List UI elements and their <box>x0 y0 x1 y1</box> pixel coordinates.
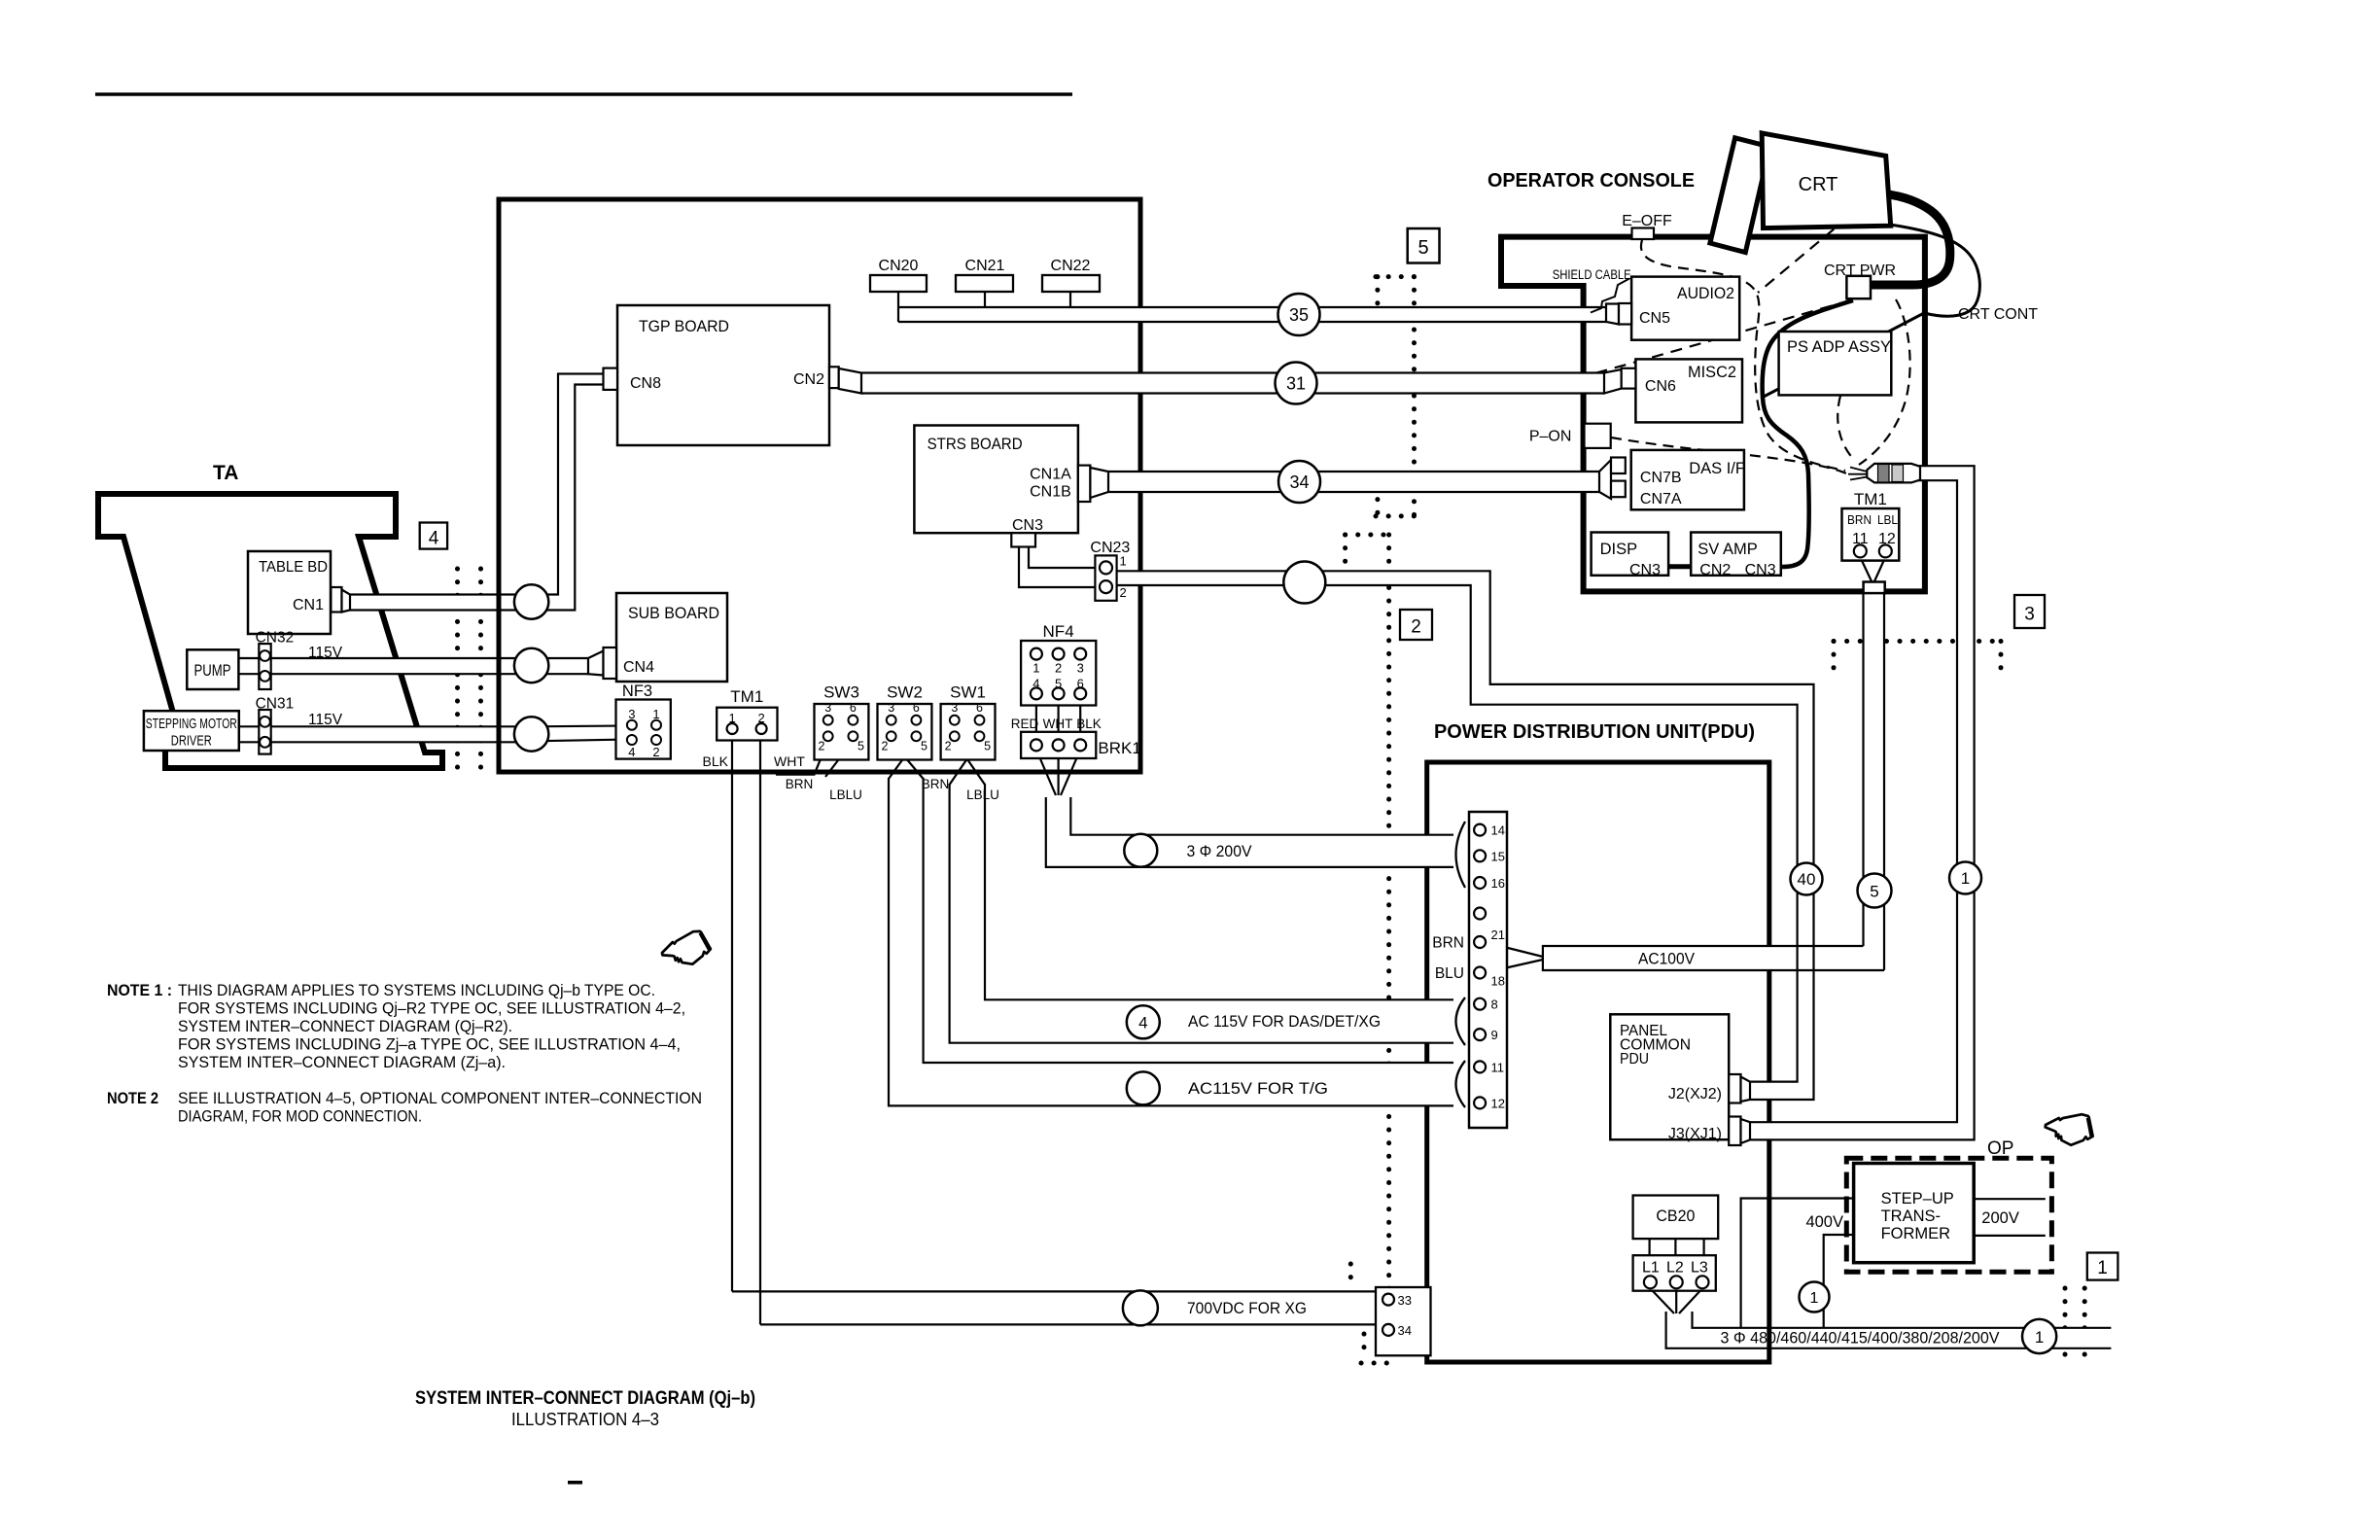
node circle NF3 <box>514 717 548 751</box>
wire 200V upper <box>1974 1198 2046 1200</box>
wires console TM1 to stub <box>1860 557 1872 582</box>
svg-text:LBLU: LBLU <box>966 787 999 802</box>
wires CN20-22 drop stubs <box>897 292 899 307</box>
svg-text:TM1: TM1 <box>1854 490 1887 508</box>
boundary tag 1 square <box>2087 1253 2118 1280</box>
node circle on T/G cable <box>1127 1071 1160 1104</box>
svg-text:2: 2 <box>819 740 825 753</box>
svg-text:STEPPING MOTOR: STEPPING MOTOR <box>146 716 237 732</box>
note 2 text block <box>107 1090 702 1126</box>
svg-text:P–ON: P–ON <box>1529 429 1572 445</box>
svg-text:LBLU: LBLU <box>829 787 862 802</box>
gantry enclosure box <box>499 199 1140 772</box>
wire 200V lower <box>1974 1235 2046 1237</box>
dashed stub from PS ADP ASSY bottom <box>1837 396 1855 461</box>
PDU right edge stub across 3-phase bus <box>1767 1328 1771 1348</box>
svg-text:31: 31 <box>1286 374 1306 394</box>
box PANEL COMMON PDU <box>1610 1014 1729 1139</box>
pointing hand icon left <box>662 931 711 964</box>
svg-text:2: 2 <box>1411 617 1421 638</box>
node circle 31 <box>1276 363 1317 404</box>
connector CN7B CN7A <box>1599 460 1611 499</box>
svg-text:CN7A: CN7A <box>1640 491 1682 507</box>
cable tube fills <box>350 595 537 611</box>
box BRK1 <box>1021 732 1096 758</box>
node circle CN4 <box>514 648 548 682</box>
svg-text:40: 40 <box>1798 870 1816 889</box>
svg-text:CN1: CN1 <box>293 597 324 613</box>
svg-text:1: 1 <box>1810 1290 1819 1307</box>
svg-text:BLU: BLU <box>1435 965 1464 982</box>
strip bracket 14-16 <box>1456 822 1466 888</box>
thick CRT PWR power cable <box>1871 193 1950 285</box>
boundary tag 5 <box>1408 228 1440 263</box>
box SV AMP <box>1691 533 1781 576</box>
svg-text:WHT: WHT <box>774 753 805 769</box>
terminal strip <box>1469 812 1507 1128</box>
connector CN5 <box>1606 304 1619 325</box>
svg-text:11: 11 <box>1491 1060 1505 1074</box>
wires node to TGP CN8 <box>533 374 604 611</box>
page dash mark <box>568 1481 582 1485</box>
connector STRS CN3 <box>1011 533 1035 546</box>
svg-text:SYSTEM INTER–CONNECT DIAGRAM (: SYSTEM INTER–CONNECT DIAGRAM (Qj–R2). <box>178 1018 512 1035</box>
svg-text:400V: 400V <box>1805 1213 1843 1231</box>
svg-text:5: 5 <box>857 740 864 753</box>
cable 34 lines <box>1108 471 1604 472</box>
svg-text:3 Φ 480/460/440/415/400/380/20: 3 Φ 480/460/440/415/400/380/208/200V <box>1721 1330 2000 1347</box>
connector J2 <box>1729 1074 1740 1103</box>
svg-text:SYSTEM INTER–CONNECT DIAGRAM (: SYSTEM INTER–CONNECT DIAGRAM (Qj–b) <box>415 1387 755 1409</box>
svg-text:L2: L2 <box>1666 1260 1684 1277</box>
boundary tag 2 <box>1400 610 1432 640</box>
svg-text:SW1: SW1 <box>950 683 986 702</box>
svg-text:115V: 115V <box>308 712 343 728</box>
svg-text:TRANS-: TRANS- <box>1881 1207 1941 1225</box>
svg-text:TGP BOARD: TGP BOARD <box>639 318 729 335</box>
wires terminal 21 18 to AC100V <box>1485 942 1543 957</box>
tube from console TM1 lines <box>1864 593 1885 970</box>
thick link DISP CN3 to SV AMP CN2 <box>1668 564 1691 569</box>
svg-text:AUDIO2: AUDIO2 <box>1677 285 1734 302</box>
cable AC115V for T/G lines <box>889 778 1453 1105</box>
svg-text:CN3: CN3 <box>1745 562 1776 578</box>
svg-text:CN6: CN6 <box>1645 378 1676 395</box>
svg-text:DISP: DISP <box>1600 541 1638 558</box>
svg-text:CRT: CRT <box>1799 174 1838 195</box>
pointing hand icon right <box>2042 1104 2098 1151</box>
multiconnector near TM1 <box>1867 464 1920 483</box>
svg-text:1: 1 <box>1120 554 1127 569</box>
svg-text:1: 1 <box>652 707 659 721</box>
svg-text:CN5: CN5 <box>1639 310 1670 327</box>
gantry wall stubs across TA cables <box>497 595 502 611</box>
connector CN4 <box>588 651 604 676</box>
connector CN1A CN1B <box>1078 466 1091 502</box>
wires STRS CN3 to CN23 <box>1019 546 1100 587</box>
svg-text:MISC2: MISC2 <box>1688 364 1736 381</box>
wires multiconnector fan <box>1850 468 1867 472</box>
svg-text:16: 16 <box>1491 876 1505 891</box>
svg-text:FOR SYSTEMS INCLUDING Zj–a TYP: FOR SYSTEMS INCLUDING Zj–a TYPE OC, SEE … <box>178 1036 681 1054</box>
svg-text:SUB BOARD: SUB BOARD <box>628 605 719 622</box>
svg-text:1: 1 <box>2097 1258 2108 1278</box>
connector box 33 34 <box>1376 1287 1431 1355</box>
svg-text:TM1: TM1 <box>730 687 763 706</box>
svg-text:AC115V FOR T/G: AC115V FOR T/G <box>1188 1080 1328 1098</box>
node circle 34 <box>1278 461 1320 503</box>
svg-text:DIAGRAM, FOR MOD CONNECTION.: DIAGRAM, FOR MOD CONNECTION. <box>178 1108 422 1126</box>
svg-text:ILLUSTRATION 4–3: ILLUSTRATION 4–3 <box>511 1410 659 1429</box>
svg-text:PDU: PDU <box>1620 1051 1649 1067</box>
svg-text:21: 21 <box>1491 927 1505 942</box>
box DAS I/F <box>1631 450 1744 509</box>
node circle 1 on 400V wire <box>1800 1282 1830 1312</box>
svg-text:SW3: SW3 <box>823 683 859 702</box>
svg-text:STRS BOARD: STRS BOARD <box>927 436 1023 453</box>
svg-text:115V: 115V <box>308 645 343 661</box>
wires NF4 to BRK1 <box>1035 698 1037 740</box>
svg-text:NF4: NF4 <box>1043 622 1074 641</box>
svg-text:5: 5 <box>1870 883 1878 901</box>
svg-text:SW2: SW2 <box>887 683 923 702</box>
svg-text:3: 3 <box>1077 661 1084 676</box>
svg-text:CRT CONT: CRT CONT <box>1958 306 2038 323</box>
svg-text:CN4: CN4 <box>623 659 654 676</box>
svg-text:DRIVER: DRIVER <box>171 733 212 750</box>
svg-text:BRN: BRN <box>1432 935 1464 952</box>
svg-text:J3(XJ1): J3(XJ1) <box>1668 1126 1722 1142</box>
svg-text:CN3: CN3 <box>1012 517 1043 534</box>
svg-text:BLK: BLK <box>1076 717 1102 731</box>
svg-text:STEP–UP: STEP–UP <box>1881 1190 1954 1207</box>
strip bracket 11-12 <box>1456 1061 1466 1107</box>
tube 1 to J3 lines <box>1750 466 1975 1139</box>
wires NF3 node to NF3 <box>533 724 628 727</box>
node circle CN1 <box>514 584 548 618</box>
boundary 2 dotted line <box>1346 533 1389 538</box>
note 1 text block <box>107 982 685 1071</box>
cable 700VDC lines <box>732 1291 1376 1324</box>
wire 400V upper <box>1741 1199 1854 1328</box>
OP dashed box <box>1846 1158 2051 1272</box>
svg-text:WHT: WHT <box>1043 717 1073 731</box>
svg-text:CN1B: CN1B <box>1030 484 1071 501</box>
box MISC2 <box>1635 359 1742 422</box>
svg-text:8: 8 <box>1491 997 1498 1012</box>
connector CN1 <box>331 587 341 612</box>
svg-text:34: 34 <box>1289 472 1309 492</box>
box PUMP <box>187 649 238 689</box>
svg-text:AC100V: AC100V <box>1638 951 1695 968</box>
svg-text:9: 9 <box>1491 1028 1498 1042</box>
box DISP <box>1592 533 1669 576</box>
wires SW2 crossing to T/G tube <box>889 741 924 779</box>
dashed cable path from P-ON <box>1611 437 1846 473</box>
svg-text:35: 35 <box>1289 305 1309 325</box>
svg-text:12: 12 <box>1491 1096 1505 1110</box>
dashed diagonal from CRT PWR <box>1559 300 1850 383</box>
svg-text:15: 15 <box>1491 849 1505 863</box>
svg-text:POWER DISTRIBUTION UNIT(PDU): POWER DISTRIBUTION UNIT(PDU) <box>1434 721 1755 743</box>
box CB20 <box>1633 1196 1719 1240</box>
wires L1 L2 L3 converging <box>1650 1288 1702 1313</box>
svg-text:SHIELD CABLE: SHIELD CABLE <box>1553 267 1631 282</box>
svg-text:BLK: BLK <box>703 753 729 769</box>
svg-text:TA: TA <box>213 462 238 484</box>
svg-text:CN2: CN2 <box>1699 562 1731 578</box>
wires TM1 gantry to 700VDC cable <box>731 734 733 1291</box>
svg-text:FOR SYSTEMS INCLUDING Qj–R2 TY: FOR SYSTEMS INCLUDING Qj–R2 TYPE OC, SEE… <box>178 1000 685 1018</box>
box L1 L2 L3 <box>1633 1255 1716 1291</box>
box TGP BOARD <box>617 305 829 445</box>
svg-text:2: 2 <box>1120 585 1127 600</box>
CRT stand shape <box>1710 138 1770 253</box>
svg-text:BRK1: BRK1 <box>1098 739 1140 757</box>
node circle 40 <box>1791 863 1823 895</box>
svg-text:6: 6 <box>976 701 983 715</box>
svg-text:5: 5 <box>1417 237 1428 259</box>
svg-text:LBL: LBL <box>1877 513 1898 527</box>
node circle 5 <box>1858 874 1892 908</box>
top rule line <box>95 92 1072 96</box>
box PS ADP ASSY <box>1779 332 1892 395</box>
TM1 console stub <box>1864 582 1885 594</box>
svg-text:PS ADP ASSY: PS ADP ASSY <box>1787 338 1891 356</box>
boundary 3 dotted line <box>1834 639 2005 644</box>
svg-text:5: 5 <box>984 740 991 753</box>
dashed diagonal from CRT to E-OFF cable <box>1758 204 1864 293</box>
svg-text:BRN: BRN <box>786 777 814 791</box>
svg-text:34: 34 <box>1398 1323 1412 1338</box>
svg-text:2: 2 <box>652 745 659 759</box>
boundary 4 dotted lines <box>455 569 460 778</box>
svg-text:2: 2 <box>945 740 952 753</box>
cable AC100V box <box>1543 946 1884 970</box>
svg-text:3: 3 <box>824 701 831 715</box>
svg-text:3: 3 <box>888 701 894 715</box>
svg-text:3: 3 <box>628 707 635 721</box>
cable 35 lines <box>898 306 1606 308</box>
PDU enclosure box <box>1427 762 1769 1362</box>
svg-text:2: 2 <box>757 711 764 725</box>
svg-text:CN20: CN20 <box>879 258 919 274</box>
svg-text:CN1A: CN1A <box>1030 467 1071 483</box>
svg-text:TABLE BD: TABLE BD <box>259 559 328 576</box>
node circle 1 on 3-phase bus <box>2022 1319 2056 1353</box>
svg-text:CN2: CN2 <box>793 371 824 388</box>
svg-text:6: 6 <box>913 701 920 715</box>
svg-text:OP: OP <box>1987 1138 2013 1159</box>
svg-text:3: 3 <box>2024 605 2035 625</box>
svg-text:DAS I/F: DAS I/F <box>1689 460 1745 477</box>
svg-text:J2(XJ2): J2(XJ2) <box>1668 1086 1722 1102</box>
svg-text:NF3: NF3 <box>622 682 652 700</box>
wires BRK1 converging to 200V tube <box>1036 750 1080 795</box>
svg-text:1: 1 <box>728 711 735 725</box>
cable 31 lines <box>861 371 1604 373</box>
box SUB BOARD <box>616 593 727 682</box>
connector CN8 <box>604 368 618 390</box>
svg-text:2: 2 <box>1055 661 1062 676</box>
node circle 4 <box>1127 1005 1160 1038</box>
svg-text:6: 6 <box>850 701 857 715</box>
dashed cable path from E-OFF <box>1641 240 1845 471</box>
svg-text:NOTE 2: NOTE 2 <box>107 1090 158 1107</box>
svg-text:33: 33 <box>1398 1293 1412 1308</box>
svg-text:BRN: BRN <box>1847 513 1872 527</box>
svg-text:SEE ILLUSTRATION 4–5, OPTIONAL: SEE ILLUSTRATION 4–5, OPTIONAL COMPONENT… <box>178 1090 702 1107</box>
svg-text:700VDC FOR XG: 700VDC FOR XG <box>1187 1300 1307 1317</box>
svg-text:SYSTEM INTER–CONNECT DIAGRAM (: SYSTEM INTER–CONNECT DIAGRAM (Zj–a). <box>178 1054 506 1071</box>
svg-text:1: 1 <box>1032 661 1039 676</box>
dashed loop right of PS ADP ASSY <box>1859 299 1910 465</box>
svg-text:CN7B: CN7B <box>1640 470 1682 486</box>
svg-text:SV AMP: SV AMP <box>1697 541 1757 558</box>
cable CN1 from TABLE BD <box>350 593 537 595</box>
boundary tag 4 <box>420 523 447 549</box>
box TABLE BD <box>248 551 331 634</box>
svg-text:NOTE 1 :: NOTE 1 : <box>107 982 172 999</box>
svg-text:3: 3 <box>951 701 958 715</box>
box AUDIO2 <box>1631 277 1739 340</box>
svg-text:AC 115V FOR DAS/DET/XG: AC 115V FOR DAS/DET/XG <box>1188 1013 1381 1031</box>
wires SW1 crossing to DAS tube <box>950 741 985 785</box>
svg-text:CN22: CN22 <box>1051 258 1091 274</box>
box STEP-UP TRANSFORMER <box>1854 1164 1975 1263</box>
connector J3 <box>1729 1117 1740 1146</box>
thin CRT CONT cable loop <box>1764 225 1979 397</box>
boundary 1 dotted lines <box>2063 1288 2068 1367</box>
svg-text:PUMP: PUMP <box>194 662 231 680</box>
svg-text:BRN: BRN <box>922 777 950 791</box>
cable 115V from stepping motor CN31 to node <box>239 725 537 727</box>
svg-text:3 Φ 200V: 3 Φ 200V <box>1187 843 1252 860</box>
svg-text:CN21: CN21 <box>965 258 1005 274</box>
svg-text:THIS DIAGRAM APPLIES TO SYSTEM: THIS DIAGRAM APPLIES TO SYSTEMS INCLUDIN… <box>178 982 655 999</box>
svg-text:2: 2 <box>882 740 889 753</box>
cable CN23 route lines <box>1117 571 1814 1100</box>
thick cable from CRT PWR to SV AMP CN3 <box>1763 300 1853 567</box>
wire 400V lower <box>1824 1235 1854 1328</box>
box STRS BOARD <box>914 426 1078 534</box>
svg-text:4: 4 <box>429 529 439 549</box>
svg-text:CN8: CN8 <box>630 375 661 392</box>
svg-text:OPERATOR CONSOLE: OPERATOR CONSOLE <box>1487 170 1695 192</box>
3-phase input bus lines <box>1666 1312 2112 1348</box>
cable AC115V for DAS lines <box>950 784 1453 1043</box>
svg-text:CB20: CB20 <box>1656 1207 1695 1225</box>
svg-text:4: 4 <box>1138 1014 1147 1032</box>
shield cable zigzag <box>1591 279 1629 313</box>
node circle 35 <box>1278 294 1320 335</box>
svg-text:5: 5 <box>921 740 927 753</box>
node circle on 200V cable <box>1124 834 1157 867</box>
TA table unit outline <box>98 494 442 768</box>
boundary tag 3 <box>2014 595 2045 628</box>
svg-text:4: 4 <box>628 745 635 759</box>
connector CN2 <box>829 367 839 388</box>
CRT monitor shape <box>1762 133 1891 228</box>
svg-text:CN3: CN3 <box>1629 562 1661 578</box>
svg-text:L1: L1 <box>1642 1260 1660 1277</box>
svg-text:L3: L3 <box>1691 1260 1708 1277</box>
cable 3ph200V lines <box>1046 797 1453 867</box>
wires CB20 to L1 L2 L3 <box>1648 1239 1650 1255</box>
svg-text:200V: 200V <box>1981 1209 2019 1227</box>
wires SW3 to gantry base <box>776 741 853 777</box>
node circle on CN23 cable <box>1283 562 1325 604</box>
svg-text:14: 14 <box>1491 823 1505 838</box>
connector CN6 <box>1604 369 1622 394</box>
node circle on 700VDC cable <box>1123 1290 1158 1325</box>
svg-text:FORMER: FORMER <box>1881 1225 1951 1242</box>
svg-text:18: 18 <box>1491 974 1505 989</box>
cable 115V from PUMP CN32 to CN4 <box>238 657 588 659</box>
box STEPPING MOTOR DRIVER <box>144 711 239 751</box>
svg-text:1: 1 <box>1961 869 1970 888</box>
strip bracket 8-9 <box>1456 997 1466 1045</box>
operator console enclosure <box>1501 237 1925 592</box>
node circle 1 on J3 tube <box>1949 862 1981 894</box>
boundary 5 dotted rectangle <box>1376 274 1416 279</box>
svg-text:1: 1 <box>2035 1328 2044 1347</box>
svg-text:RED: RED <box>1011 717 1039 731</box>
